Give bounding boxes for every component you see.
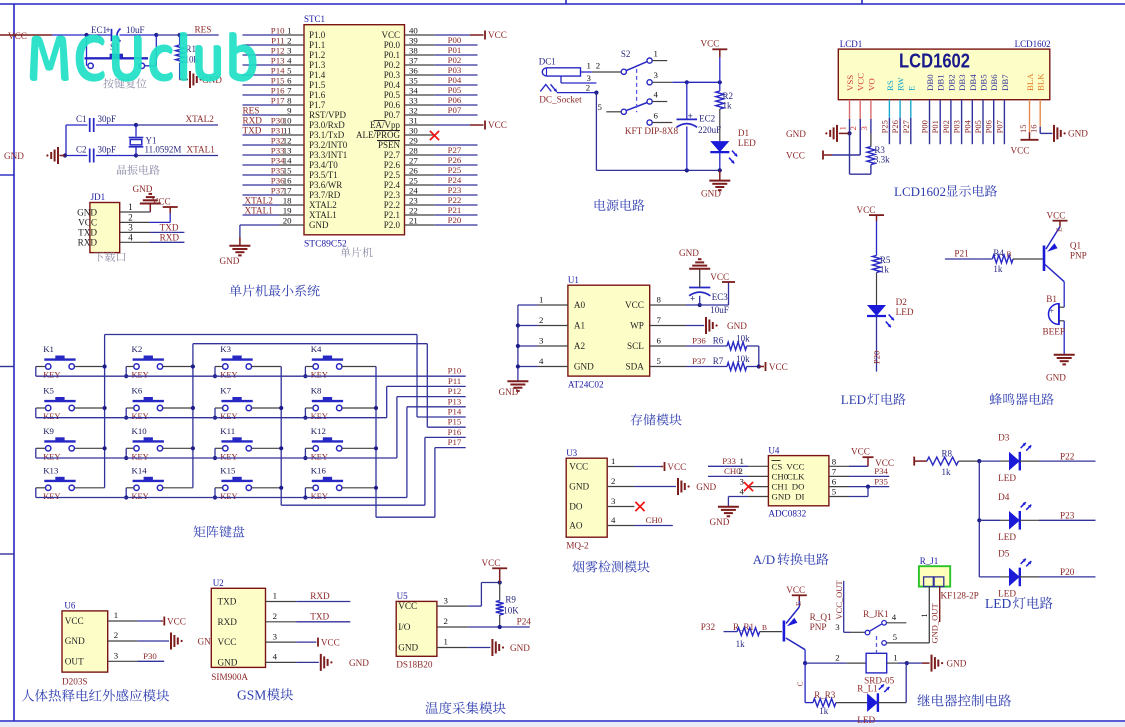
pin 18 MCU left: [243, 204, 280, 206]
pin 35 MCU right: [405, 84, 435, 86]
wire net P27: [435, 154, 478, 156]
junction EC2 top: [685, 80, 689, 84]
svg-text:P27: P27: [448, 145, 462, 155]
svg-text:220uF: 220uF: [698, 125, 721, 135]
pins DB0-DB7 wires: [929, 100, 931, 145]
title PIR module chinese: [22, 689, 170, 702]
svg-text:1: 1: [128, 202, 133, 212]
svg-text:40: 40: [409, 26, 418, 36]
svg-text:B: B: [762, 623, 767, 632]
pin 10 MCU left: [243, 124, 280, 126]
svg-text:A1: A1: [574, 321, 586, 331]
sheet border tick marks: [565, 0, 567, 4]
power VCC EC3: [722, 281, 735, 283]
pin 27 MCU right: [405, 164, 435, 166]
pins RS RW E wires: [888, 100, 890, 118]
svg-text:P1.4: P1.4: [309, 70, 326, 80]
svg-text:D203S: D203S: [62, 677, 88, 687]
svg-text:SDA: SDA: [626, 362, 645, 372]
svg-text:R7: R7: [713, 356, 724, 366]
svg-text:KF128-2P: KF128-2P: [941, 591, 979, 601]
svg-text:XTAL1: XTAL1: [187, 145, 216, 155]
svg-text:P36: P36: [271, 176, 285, 186]
svg-text:P03: P03: [952, 120, 962, 133]
svg-text:2: 2: [128, 212, 133, 222]
svg-text:KEY: KEY: [132, 492, 149, 501]
wire pin7 WP to ground: [686, 325, 704, 327]
svg-text:2: 2: [114, 630, 118, 640]
svg-text:P2.2: P2.2: [384, 200, 400, 210]
svg-text:3: 3: [654, 70, 659, 80]
wire net P13 route: [406, 407, 408, 498]
svg-text:P0.1: P0.1: [384, 50, 400, 60]
svg-text:P26: P26: [890, 120, 900, 133]
pin 4 U3: [607, 525, 634, 527]
svg-text:9: 9: [287, 106, 292, 116]
svg-text:LED: LED: [896, 307, 914, 317]
svg-text:35: 35: [409, 76, 418, 86]
wire net P07: [435, 114, 478, 116]
svg-text:37: 37: [409, 56, 418, 66]
svg-text:C1: C1: [76, 114, 87, 124]
svg-text:10k: 10k: [736, 354, 750, 364]
capacitor C2 30pF: [65, 155, 88, 157]
pin 20 MCU left: [279, 224, 304, 226]
resistor R3 3.3k: [867, 147, 875, 165]
svg-text:GND: GND: [133, 184, 153, 194]
svg-text:MQ-2: MQ-2: [566, 541, 589, 551]
svg-text:VCC: VCC: [65, 616, 84, 626]
svg-text:P15: P15: [271, 76, 285, 86]
pin 33 MCU right: [405, 104, 435, 106]
svg-text:1: 1: [539, 295, 543, 305]
svg-text:P06: P06: [984, 120, 994, 133]
svg-text:P0.5: P0.5: [384, 90, 401, 100]
svg-text:U2: U2: [213, 578, 224, 588]
pin 2 DC1 spring contact: [540, 85, 551, 92]
title buzzer circuit chinese: [990, 393, 1054, 405]
wire U4 pin5 joins pin6: [849, 496, 868, 498]
dashed link relay: [876, 636, 878, 653]
svg-text:5: 5: [598, 102, 603, 112]
pin 37 MCU right: [405, 64, 435, 66]
svg-text:K8: K8: [311, 386, 322, 396]
svg-text:Q1: Q1: [1070, 241, 1082, 251]
svg-text:XTAL2: XTAL2: [309, 200, 337, 210]
svg-text:+: +: [690, 294, 695, 304]
wire LED branch up: [905, 663, 907, 703]
svg-text:P0.6: P0.6: [384, 100, 401, 110]
wire U5 pin1 GND: [468, 647, 490, 649]
svg-text:R5: R5: [880, 255, 891, 265]
svg-text:VCC: VCC: [398, 601, 417, 611]
svg-text:KEY: KEY: [220, 412, 237, 421]
no-connect X pin30: [430, 131, 439, 140]
overline CS: [772, 460, 781, 462]
svg-text:R_JK1: R_JK1: [863, 609, 889, 619]
wire pin5 SDA net P37 resistor R7: [686, 366, 727, 368]
svg-text:DC1: DC1: [539, 57, 556, 67]
svg-text:P2.0: P2.0: [384, 220, 401, 230]
svg-text:VCC: VCC: [321, 637, 340, 647]
wire LED bank vertical: [978, 461, 980, 577]
pin 32 MCU right: [405, 114, 435, 116]
dashed link S2: [636, 69, 638, 112]
junction R8 LED bank: [977, 459, 981, 463]
svg-text:RXD: RXD: [310, 591, 330, 601]
svg-text:3.3k: 3.3k: [874, 155, 890, 165]
wire relay coil pin2: [805, 662, 847, 664]
wire U6 pin2 GND: [137, 640, 169, 642]
svg-text:P16: P16: [271, 86, 285, 96]
switch S1 push button: [86, 35, 88, 66]
pin 6 U1: [650, 345, 686, 347]
svg-text:P06: P06: [448, 95, 462, 105]
svg-text:7: 7: [832, 466, 837, 476]
svg-text:P12: P12: [271, 46, 285, 56]
ground power circuit: [719, 170, 721, 180]
sheet border top line: [0, 3, 1125, 5]
svg-text:6: 6: [657, 336, 662, 346]
wire U1 address pins to ground: [517, 305, 519, 381]
svg-text:PNP: PNP: [1070, 250, 1087, 260]
overline PSEN: [377, 140, 400, 142]
svg-text:4: 4: [539, 356, 544, 366]
svg-text:P07: P07: [994, 120, 1004, 133]
svg-text:D4: D4: [998, 492, 1010, 502]
label crystal-circuit chinese: [117, 165, 160, 175]
svg-text:33: 33: [409, 96, 418, 106]
svg-text:1: 1: [114, 610, 118, 620]
svg-text:SIM900A: SIM900A: [211, 672, 248, 682]
svg-text:AT24C02: AT24C02: [568, 380, 604, 390]
svg-text:P20: P20: [448, 215, 462, 225]
wire U5 pin2 net P24: [468, 626, 530, 628]
svg-text:2: 2: [596, 61, 600, 71]
wire net P22: [1020, 460, 1039, 462]
svg-text:GSM: GSM: [237, 688, 266, 703]
label button-reset chinese: [103, 78, 146, 88]
wire row rail 4: [36, 497, 407, 499]
svg-text:4: 4: [611, 515, 616, 525]
junction node R1 top: [178, 33, 182, 37]
svg-text:VCC: VCC: [488, 120, 507, 130]
ground for crystal: [63, 153, 67, 157]
pin 17 MCU left: [243, 194, 280, 196]
svg-text:CH1: CH1: [772, 482, 789, 492]
svg-text:A/D: A/D: [753, 552, 775, 567]
pin BLK wire to GND: [1039, 100, 1041, 127]
pin 11 MCU left: [243, 134, 280, 136]
svg-text:1: 1: [654, 49, 658, 59]
pin 1 U5: [437, 647, 468, 649]
pin 2 U5: [437, 626, 468, 628]
svg-text:CS: CS: [772, 461, 783, 471]
svg-text:P3.7/RD: P3.7/RD: [309, 190, 341, 200]
svg-text:KEY: KEY: [43, 371, 60, 380]
svg-text:2: 2: [287, 36, 291, 46]
svg-text:7: 7: [657, 315, 662, 325]
pin 6 MCU left: [243, 84, 280, 86]
svg-text:OUT: OUT: [65, 656, 84, 666]
svg-text:1k: 1k: [880, 265, 890, 275]
svg-text:P25: P25: [880, 120, 890, 133]
capacitor EC3 10uF: [699, 296, 701, 305]
pin 2 JD1: [120, 221, 150, 223]
svg-text:1k: 1k: [736, 639, 746, 649]
svg-text:EC3: EC3: [712, 292, 729, 302]
svg-text:VCC: VCC: [625, 300, 644, 310]
svg-text:P03: P03: [448, 65, 462, 75]
pin 29 MCU right: [405, 144, 435, 146]
svg-text:P15: P15: [448, 417, 462, 427]
wire net P02: [435, 64, 478, 66]
pin 3 DC1 middle contact: [560, 76, 562, 83]
svg-text:3: 3: [114, 651, 119, 661]
wire VCC rail: [0, 34, 52, 36]
svg-text:P10: P10: [448, 366, 462, 376]
capacitor EC2 220uF: [686, 82, 688, 119]
svg-text:P0.7: P0.7: [384, 110, 401, 120]
pin 12 MCU left: [243, 144, 280, 146]
svg-text:VCC: VCC: [218, 637, 237, 647]
svg-text:7: 7: [287, 86, 292, 96]
svg-text:RES: RES: [243, 106, 260, 116]
pin VO wire: [870, 100, 872, 119]
pin 2 U2: [266, 621, 297, 623]
wire R_J1 pin2 GND_OUT: [939, 587, 941, 622]
wire U3 pin4 CH0: [634, 525, 672, 527]
svg-text:P3.2/INT0: P3.2/INT0: [309, 140, 348, 150]
svg-text:E: E: [794, 601, 803, 606]
svg-text:VCC: VCC: [1011, 146, 1030, 156]
svg-text:BLA: BLA: [1025, 73, 1035, 91]
svg-text:KEY: KEY: [311, 492, 328, 501]
wire column 2 net P15 route: [192, 344, 194, 488]
svg-text:U4: U4: [768, 446, 779, 456]
svg-text:4: 4: [273, 652, 278, 662]
svg-text:16: 16: [1029, 125, 1039, 134]
svg-text:R_L1: R_L1: [857, 684, 878, 694]
pin 3 U5: [437, 605, 468, 607]
power VCC pin31 EA: [435, 124, 470, 126]
svg-text:DB3: DB3: [957, 74, 967, 91]
svg-text:VCC: VCC: [856, 73, 866, 91]
ground U1: [507, 380, 528, 382]
svg-text:GND: GND: [574, 362, 594, 372]
pin 1 S2: [652, 60, 667, 62]
wire U6 pin3 net P30: [137, 660, 164, 662]
svg-text:DB7: DB7: [1000, 74, 1010, 91]
svg-text:VCC: VCC: [8, 31, 27, 41]
svg-text:VCC: VCC: [786, 585, 805, 595]
svg-text:P0.3: P0.3: [384, 70, 401, 80]
svg-text:P0.4: P0.4: [384, 80, 401, 90]
relay coil SRD-05: [866, 653, 887, 673]
wire EC1 to RES node: [120, 34, 157, 36]
svg-text:VCC: VCC: [488, 30, 507, 40]
svg-text:26: 26: [409, 166, 418, 176]
wire collector branch C: [804, 663, 806, 703]
title MCU minimal system chinese: [229, 285, 319, 297]
svg-text:P3.6/WR: P3.6/WR: [309, 180, 342, 190]
svg-text:LCD1602: LCD1602: [899, 50, 970, 73]
svg-text:P1.0: P1.0: [309, 30, 326, 40]
svg-text:GND: GND: [727, 321, 747, 331]
svg-text:R2: R2: [723, 91, 734, 101]
svg-text:P00: P00: [448, 35, 462, 45]
svg-text:P20: P20: [1060, 567, 1075, 577]
svg-text:1k: 1k: [819, 706, 829, 716]
svg-text:D3: D3: [998, 433, 1010, 443]
wire RES: [156, 34, 218, 36]
wire U4 pin2 net CH0: [708, 475, 748, 477]
svg-text:27: 27: [409, 156, 418, 166]
pin 25 MCU right: [405, 184, 435, 186]
svg-text:31: 31: [409, 116, 418, 126]
power VCC R8: [913, 457, 915, 466]
svg-text:P16: P16: [448, 427, 462, 437]
svg-text:K12: K12: [311, 426, 326, 436]
svg-text:A2: A2: [574, 341, 586, 351]
svg-text:30pF: 30pF: [98, 114, 117, 124]
svg-text:ALE/PROG: ALE/PROG: [356, 130, 401, 140]
svg-text:P20: P20: [872, 351, 882, 364]
pin 1 DC1 wire: [581, 71, 592, 73]
svg-text:SCL: SCL: [627, 341, 644, 351]
svg-text:DB4: DB4: [968, 74, 978, 91]
svg-text:VCC: VCC: [786, 151, 805, 161]
wire relay coil pin1 to ground: [887, 662, 898, 664]
svg-text:VCC: VCC: [1047, 210, 1066, 220]
svg-text:VCC: VCC: [167, 616, 186, 626]
svg-text:GND: GND: [510, 643, 530, 653]
wire stub crossing left border y554: [0, 553, 14, 555]
svg-text:LED: LED: [738, 138, 756, 148]
svg-text:P14: P14: [271, 66, 285, 76]
wire row rail 3: [36, 457, 397, 459]
svg-text:P21: P21: [954, 249, 969, 259]
svg-text:GND: GND: [4, 151, 24, 161]
svg-text:P3.4/T0: P3.4/T0: [309, 160, 338, 170]
svg-text:GND: GND: [701, 189, 721, 199]
svg-text:EC1: EC1: [91, 25, 107, 35]
pin 3 S2: [647, 80, 652, 85]
pin 24 MCU right: [405, 194, 435, 196]
svg-text:3: 3: [128, 222, 133, 232]
svg-text:2: 2: [739, 466, 743, 476]
pin 5 MCU left: [243, 74, 280, 76]
svg-text:WP: WP: [630, 321, 644, 331]
ground buzzer: [1054, 354, 1075, 356]
svg-text:C2: C2: [76, 145, 87, 155]
svg-text:R9: R9: [505, 595, 516, 605]
svg-text:P3.0/RxD: P3.0/RxD: [309, 120, 345, 130]
svg-text:CH0: CH0: [646, 515, 663, 525]
svg-text:TXD: TXD: [243, 126, 262, 136]
svg-text:E: E: [906, 86, 916, 91]
svg-text:TXD: TXD: [218, 597, 237, 607]
wire net P00: [435, 44, 478, 46]
svg-text:P11: P11: [271, 36, 284, 46]
svg-text:P2.3: P2.3: [384, 190, 401, 200]
ground for R1: [180, 79, 188, 81]
svg-text:GND: GND: [772, 492, 791, 502]
svg-text:P2.7: P2.7: [384, 150, 401, 160]
svg-text:4: 4: [654, 90, 659, 100]
pin 13 MCU left: [243, 154, 280, 156]
pin 3 U1: [518, 345, 538, 347]
wire U4 pin7 net P34: [849, 475, 889, 477]
svg-text:EA/Vpp: EA/Vpp: [370, 120, 400, 130]
pin 2 MCU left: [243, 44, 280, 46]
title power circuit chinese: [595, 199, 645, 211]
svg-text:K4: K4: [311, 344, 322, 354]
svg-text:P21: P21: [448, 205, 462, 215]
wire collector junction: [804, 650, 806, 663]
svg-text:VCC: VCC: [851, 447, 870, 457]
title storage module chinese: [631, 414, 682, 426]
wire net P20: [1020, 576, 1039, 578]
svg-text:RST/VPD: RST/VPD: [309, 110, 347, 120]
label MCU chinese: [340, 247, 372, 257]
wire GND pin20 and ground: [240, 224, 279, 226]
pin VCC wire: [859, 100, 861, 119]
svg-text:K2: K2: [132, 344, 143, 354]
svg-text:B1: B1: [1046, 294, 1057, 304]
svg-text:XTAL2: XTAL2: [186, 114, 215, 124]
svg-text:P2.6: P2.6: [384, 160, 401, 170]
title temperature module chinese: [425, 702, 505, 715]
wire net P25: [435, 174, 478, 176]
svg-text:VSS: VSS: [845, 75, 855, 91]
ground above EC3: [689, 268, 710, 270]
resistor R1 10k: [179, 35, 181, 45]
svg-text:P37: P37: [271, 186, 285, 196]
power VCC R6 R7: [759, 366, 764, 368]
wire row rail 1 net P10: [36, 375, 466, 377]
svg-text:10k: 10k: [736, 334, 750, 344]
pin 7 MCU left: [243, 94, 280, 96]
svg-text:KEY: KEY: [311, 412, 328, 421]
svg-text:KEY: KEY: [220, 371, 237, 380]
svg-text:3: 3: [740, 477, 745, 487]
svg-text:D5: D5: [998, 548, 1010, 558]
svg-text:DS18B20: DS18B20: [396, 660, 433, 670]
svg-text:P00: P00: [920, 120, 930, 133]
pin 26 MCU right: [405, 174, 435, 176]
svg-text:P04: P04: [448, 75, 462, 85]
svg-text:P33: P33: [271, 146, 285, 156]
resistor R9 10K: [499, 583, 501, 601]
svg-text:P02: P02: [941, 120, 951, 133]
svg-text:6: 6: [832, 477, 837, 487]
svg-text:P33: P33: [722, 456, 736, 466]
wire column 4 net P17 route: [375, 367, 377, 518]
svg-text:JD1: JD1: [91, 192, 106, 202]
svg-text:DB6: DB6: [989, 74, 999, 91]
svg-text:1k: 1k: [993, 264, 1003, 274]
svg-text:TXD: TXD: [78, 228, 97, 238]
svg-text:39: 39: [409, 36, 418, 46]
svg-text:1: 1: [838, 126, 848, 130]
svg-text:P25: P25: [448, 165, 462, 175]
svg-text:R_J1: R_J1: [920, 556, 939, 566]
svg-text:30pF: 30pF: [98, 145, 117, 155]
svg-text:LED: LED: [998, 532, 1016, 542]
svg-text:2: 2: [273, 611, 277, 621]
pin 1 U3: [607, 466, 634, 468]
